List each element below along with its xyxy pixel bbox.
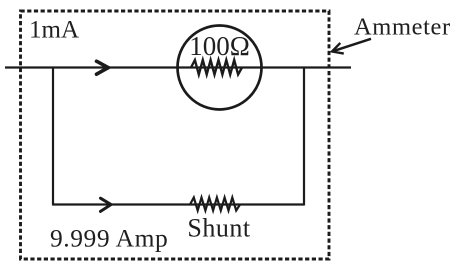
current direction arrow on shunt wire <box>101 198 112 211</box>
current direction arrow on top wire <box>97 61 109 74</box>
label pointer arrow from Ammeter text to box <box>332 39 371 54</box>
svg-text:1mA: 1mA <box>29 17 79 44</box>
wire: right vertical branch <box>303 67 305 206</box>
svg-text:Shunt: Shunt <box>187 214 250 243</box>
svg-text:Ammeter: Ammeter <box>354 14 451 41</box>
resistor (meter coil) zigzag 100 ohm <box>191 60 242 75</box>
svg-text:9.999 Amp: 9.999 Amp <box>50 224 168 253</box>
ammeter enclosure dashed box <box>21 11 330 259</box>
galvanometer U1 circle <box>178 26 262 110</box>
resistor (shunt) zigzag <box>190 198 240 211</box>
wire: bottom horizontal conductor (shunt branch) <box>53 203 304 205</box>
svg-text:100Ω: 100Ω <box>189 31 250 61</box>
wire: top horizontal conductor <box>5 66 351 68</box>
wire: left vertical branch <box>52 67 54 206</box>
